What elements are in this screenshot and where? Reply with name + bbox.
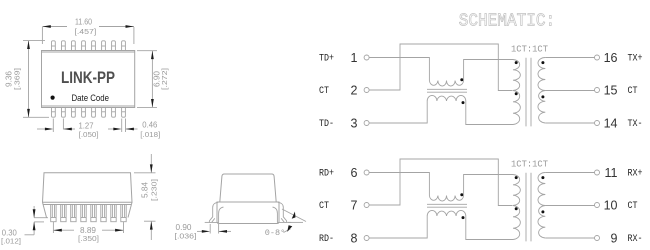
wire choke lower to primary bottom bbox=[466, 101, 513, 125]
terminal pin 8 (RD-) bbox=[319, 231, 369, 245]
svg-text:0.46: 0.46 bbox=[142, 120, 157, 130]
transformer primary winding lower bbox=[513, 91, 520, 125]
transformer primary winding upper bbox=[513, 60, 520, 91]
svg-text:RX-: RX- bbox=[628, 234, 643, 245]
svg-text:[.230]: [.230] bbox=[150, 179, 159, 201]
svg-text:CT: CT bbox=[628, 201, 638, 212]
terminal pin 7 (CT) bbox=[319, 198, 369, 212]
svg-text:1.27: 1.27 bbox=[79, 120, 94, 130]
svg-text:2: 2 bbox=[351, 83, 358, 97]
secondary polarity dot upper bbox=[541, 176, 544, 179]
wire secondary top to pin 11 bbox=[545, 172, 594, 174]
terminal pin 10 (CT) bbox=[595, 198, 638, 212]
svg-text:[.272]: [.272] bbox=[160, 68, 169, 90]
dimension 9.36 [.369] bbox=[23, 41, 49, 118]
choke core lines bbox=[427, 204, 467, 207]
dimension 0.30 [.012] standoff bbox=[25, 206, 49, 235]
transformer secondary winding lower bbox=[538, 206, 545, 239]
common-mode choke winding upper bbox=[429, 196, 463, 202]
transformer secondary winding lower bbox=[538, 91, 545, 124]
svg-text:SCHEMATIC:: SCHEMATIC: bbox=[459, 10, 556, 31]
dimension 8.89 [.350] pin span bbox=[53, 222, 123, 234]
front view pins bbox=[51, 205, 127, 222]
wire choke lower to primary bottom bbox=[466, 216, 513, 240]
terminal pin 2 (CT) bbox=[319, 83, 369, 97]
secondary polarity dot lower bbox=[541, 95, 544, 98]
package body end view bbox=[217, 174, 279, 224]
lead angle 0-8 deg bbox=[282, 209, 306, 233]
svg-text:TD-: TD- bbox=[319, 119, 334, 130]
svg-text:1CT:1CT: 1CT:1CT bbox=[511, 45, 549, 55]
dimension 6.90 [.272] bbox=[137, 51, 157, 108]
transformer core bbox=[526, 173, 531, 242]
svg-text:9: 9 bbox=[611, 231, 618, 245]
svg-text:16: 16 bbox=[604, 51, 618, 65]
package body front view bbox=[43, 173, 133, 218]
terminal pin 3 (TD-) bbox=[319, 116, 369, 130]
wire pin 2 center-tap over-route bbox=[369, 44, 512, 91]
dimension 5.84 [.230] height bbox=[134, 154, 156, 240]
terminal pin 9 (RX-) bbox=[595, 231, 643, 245]
dimension 0.46 [.018] pin width bbox=[108, 119, 138, 133]
svg-text:Date Code: Date Code bbox=[72, 93, 110, 104]
wire choke upper to primary top bbox=[464, 60, 513, 81]
svg-text:5.84: 5.84 bbox=[139, 182, 149, 198]
svg-text:CT: CT bbox=[319, 86, 329, 97]
transformer secondary winding upper bbox=[538, 173, 545, 206]
primary polarity dot upper bbox=[515, 176, 518, 179]
common-mode choke winding lower bbox=[427, 95, 466, 101]
wire choke upper to primary top bbox=[464, 175, 513, 196]
wire pin 8 to choke bbox=[369, 216, 427, 238]
gull-wing lead left bbox=[205, 202, 224, 222]
svg-text:6: 6 bbox=[351, 166, 358, 180]
terminal pin 15 (CT) bbox=[595, 83, 638, 97]
wire secondary top to pin 16 bbox=[545, 57, 594, 59]
svg-text:11: 11 bbox=[605, 166, 618, 180]
primary polarity dot lower bbox=[515, 92, 518, 95]
svg-text:RX+: RX+ bbox=[628, 169, 643, 180]
svg-text:1CT:1CT: 1CT:1CT bbox=[511, 160, 549, 170]
choke polarity dot upper bbox=[460, 193, 463, 196]
svg-text:15: 15 bbox=[604, 83, 618, 97]
svg-text:7: 7 bbox=[351, 198, 358, 212]
svg-text:[.369]: [.369] bbox=[13, 68, 22, 90]
transformer primary winding upper bbox=[513, 175, 520, 206]
svg-text:RD-: RD- bbox=[319, 234, 334, 245]
terminal pin 11 (RX+) bbox=[595, 166, 643, 180]
wire secondary bottom to pin 9 bbox=[545, 237, 594, 239]
svg-text:TX+: TX+ bbox=[628, 54, 643, 65]
gull-wing lead right bbox=[273, 202, 292, 222]
choke polarity dot lower bbox=[462, 101, 465, 104]
common-mode choke winding upper bbox=[429, 81, 463, 87]
svg-text:14: 14 bbox=[604, 116, 618, 130]
svg-text:1: 1 bbox=[351, 51, 358, 65]
choke core lines bbox=[427, 89, 467, 92]
terminal pin 16 (TX+) bbox=[595, 51, 643, 65]
choke polarity dot lower bbox=[462, 216, 465, 219]
transformer primary winding lower bbox=[513, 206, 520, 240]
terminal pin 14 (TX-) bbox=[595, 116, 643, 130]
svg-text:[.457]: [.457] bbox=[74, 27, 96, 36]
wire secondary tap to pin 10 bbox=[545, 205, 594, 207]
svg-text:CT: CT bbox=[319, 201, 329, 212]
transformer secondary winding upper bbox=[538, 58, 545, 91]
transformer core bbox=[526, 58, 531, 127]
dimension 0.90 [.036] lead width bbox=[197, 224, 231, 234]
choke polarity dot upper bbox=[460, 78, 463, 81]
primary polarity dot lower bbox=[515, 207, 518, 210]
svg-text:[.012]: [.012] bbox=[1, 237, 21, 246]
IC pins top row bbox=[52, 41, 126, 51]
svg-text:8: 8 bbox=[351, 231, 358, 245]
wire pin 6 to choke bbox=[369, 173, 429, 196]
svg-text:LINK-PP: LINK-PP bbox=[61, 68, 115, 87]
svg-text:RD+: RD+ bbox=[319, 169, 334, 180]
svg-text:[.050]: [.050] bbox=[79, 130, 99, 139]
wire pin 7 center-tap over-route bbox=[369, 159, 512, 206]
svg-text:[.036]: [.036] bbox=[175, 231, 197, 240]
wire secondary tap to pin 15 bbox=[545, 90, 594, 92]
svg-text:[.350]: [.350] bbox=[78, 234, 99, 243]
terminal pin 1 (TD+) bbox=[319, 51, 369, 65]
svg-text:CT: CT bbox=[628, 86, 638, 97]
svg-text:10: 10 bbox=[604, 198, 618, 212]
svg-text:TX-: TX- bbox=[628, 119, 643, 130]
IC pins bottom row bbox=[52, 108, 126, 118]
svg-text:0-8°: 0-8° bbox=[265, 228, 285, 238]
svg-text:TD+: TD+ bbox=[319, 54, 334, 65]
svg-text:[.018]: [.018] bbox=[140, 130, 160, 139]
secondary polarity dot upper bbox=[541, 61, 544, 64]
terminal pin 6 (RD+) bbox=[319, 166, 369, 180]
wire pin 1 to choke bbox=[369, 58, 429, 81]
primary polarity dot upper bbox=[515, 61, 518, 64]
svg-text:3: 3 bbox=[351, 116, 358, 130]
dimension 11.60 [.457] bbox=[42, 27, 133, 45]
common-mode choke winding lower bbox=[427, 210, 466, 216]
svg-text:11.60: 11.60 bbox=[75, 17, 92, 27]
secondary polarity dot lower bbox=[541, 210, 544, 213]
package body top view bbox=[42, 51, 135, 108]
wire pin 3 to choke bbox=[369, 101, 427, 123]
pin 1 index dot bbox=[51, 96, 55, 100]
dimension 1.27 [.050] pin pitch bbox=[37, 119, 75, 133]
wire secondary bottom to pin 14 bbox=[545, 122, 594, 124]
